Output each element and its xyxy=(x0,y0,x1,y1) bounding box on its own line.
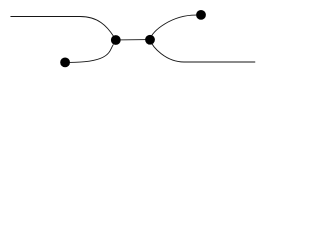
node D (upper-right dot) xyxy=(196,10,206,20)
node B (lower-left dot) xyxy=(60,58,70,68)
wire from node C curving down to bottom-right horizontal xyxy=(150,40,255,62)
node A (left junction dot) xyxy=(111,35,121,45)
wire from node B curving up into node A xyxy=(65,45,114,63)
wire middle segment A-C xyxy=(116,39,150,41)
node C (right junction dot) xyxy=(145,35,155,45)
wire from node C curving up to node D xyxy=(150,15,201,40)
wire top-left horizontal curving into node A xyxy=(11,17,116,40)
